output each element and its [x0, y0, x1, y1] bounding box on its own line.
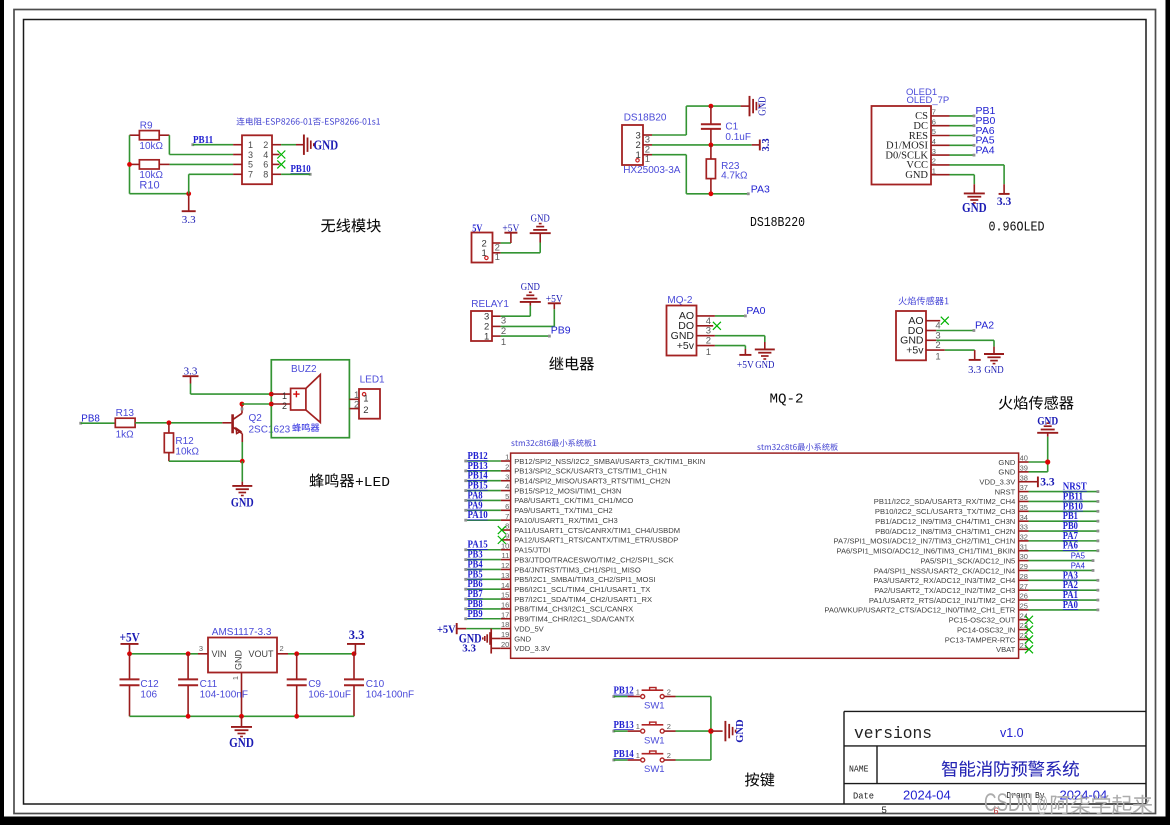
net label PB9 — [551, 325, 571, 337]
resistor R13 — [115, 408, 135, 440]
capacitor C10 — [344, 654, 414, 717]
svg-text:GND: GND — [758, 96, 769, 116]
svg-text:GND: GND — [514, 634, 531, 643]
no-connect X on AO flame — [941, 317, 949, 325]
wire +5v pin flame to 3.3 — [945, 350, 975, 360]
svg-text:13: 13 — [501, 571, 509, 580]
svg-text:4.7kΩ: 4.7kΩ — [721, 170, 748, 181]
caption 继电器 — [549, 356, 594, 370]
svg-text:+5v: +5v — [677, 340, 695, 352]
svg-text:GND: GND — [735, 719, 746, 743]
wire power bus vertical stm32 — [490, 629, 492, 654]
svg-text:VBAT: VBAT — [996, 645, 1016, 654]
svg-text:39: 39 — [1020, 463, 1028, 472]
wire R9 right lead — [159, 134, 169, 136]
pin 1 stub led — [349, 390, 359, 401]
svg-text:HX25003-3A: HX25003-3A — [623, 165, 681, 176]
wire GND pin down — [950, 175, 975, 194]
svg-text:2: 2 — [363, 405, 368, 416]
svg-text:AMS1117-3.3: AMS1117-3.3 — [212, 627, 272, 638]
svg-text:6: 6 — [263, 160, 268, 170]
svg-text:2: 2 — [667, 687, 671, 696]
connector DS18B20 label — [624, 112, 667, 123]
pin 2 stub led — [349, 399, 359, 410]
power 3.3 at DS18B20 (rotated) — [760, 138, 772, 151]
svg-text:3: 3 — [199, 644, 203, 653]
connector J-5V body — [472, 233, 493, 263]
net label PB11 — [191, 134, 213, 146]
stm32 right wires — [1029, 490, 1100, 611]
power 3.3 below wireless module — [182, 194, 196, 226]
svg-text:10kΩ: 10kΩ — [139, 141, 163, 152]
connector 火焰传感器1 label — [898, 297, 948, 306]
svg-text:+5V: +5V — [737, 360, 754, 371]
pin 4 stub — [272, 154, 280, 156]
pin 8 stub — [272, 173, 281, 175]
ground GND at DS18B20 (rotated) — [750, 96, 769, 116]
connector P1 ESP8266 8-pin body — [242, 135, 272, 184]
wire pin1 to GND — [501, 233, 541, 253]
net label PA3 — [751, 183, 770, 195]
svg-text:PA7/SPI1_MOSI/ADC12_IN7/TIM3_C: PA7/SPI1_MOSI/ADC12_IN7/TIM3_CH2/TIM1_CH… — [834, 537, 1016, 546]
svg-text:R12: R12 — [175, 436, 194, 447]
node junction C11 top — [186, 651, 191, 656]
power +5V at 5V conn — [502, 224, 519, 243]
wire ds pin1 down — [652, 155, 686, 194]
svg-text:GND: GND — [1037, 416, 1058, 428]
svg-text:GND: GND — [234, 650, 244, 671]
wire pin19 gnd — [491, 637, 501, 639]
power +5V at relay — [546, 294, 563, 305]
wire loop around buzzer — [271, 360, 349, 438]
wire R9 left lead — [130, 134, 140, 136]
pin 1 stub relay — [492, 336, 506, 348]
svg-text:BUZ2: BUZ2 — [291, 364, 317, 375]
pin 1 stub mq — [697, 346, 715, 358]
svg-text:GND: GND — [229, 735, 254, 750]
svg-text:RELAY1: RELAY1 — [471, 299, 509, 310]
svg-text:VOUT: VOUT — [248, 649, 274, 659]
svg-text:2: 2 — [667, 722, 671, 731]
pin 3 stub relay — [492, 316, 506, 327]
svg-text:32: 32 — [1020, 532, 1028, 541]
node junction gnd bottom — [239, 714, 244, 719]
svg-text:PB13: PB13 — [614, 719, 635, 731]
svg-text:1: 1 — [636, 722, 640, 731]
node junction bottom rail — [709, 191, 714, 196]
power 3.3 at AMS1117 out — [347, 628, 365, 654]
svg-text:104-100nF: 104-100nF — [200, 689, 248, 700]
svg-text:5: 5 — [882, 805, 887, 816]
svg-text:104-100nF: 104-100nF — [366, 689, 414, 700]
resistor R10 — [139, 160, 163, 192]
svg-text:3.3: 3.3 — [462, 643, 476, 655]
svg-text:PB15/SP12_MOSI/TIM1_CH3N: PB15/SP12_MOSI/TIM1_CH3N — [514, 486, 621, 495]
svg-text:PB5/I2C1_SMBAI/TIM3_CH2/SPI1_M: PB5/I2C1_SMBAI/TIM3_CH2/SPI1_MOSI — [514, 575, 655, 584]
node junction C10 top — [352, 651, 357, 656]
ground GND at buttons (rotated) — [725, 719, 746, 743]
pin 2 stub flame — [926, 340, 941, 351]
stm32 left wires — [464, 460, 501, 621]
svg-text:7: 7 — [248, 170, 253, 180]
red page mark — [994, 806, 999, 816]
svg-text:PA15/JTDI: PA15/JTDI — [514, 546, 550, 555]
pin 3 stub mq — [697, 326, 714, 337]
svg-text:GND: GND — [231, 495, 254, 509]
title block drawn value — [1060, 788, 1108, 803]
svg-text:5: 5 — [248, 160, 253, 170]
svg-text:1: 1 — [636, 751, 640, 760]
wire PB14 to switch — [614, 759, 641, 761]
connector OLED1 label — [906, 87, 949, 106]
svg-text:PA0: PA0 — [1063, 599, 1078, 611]
svg-text:GND: GND — [314, 138, 339, 153]
svg-text:31: 31 — [1020, 542, 1028, 551]
pin 3 stub — [233, 154, 242, 156]
wire R10 left lead — [130, 163, 140, 165]
svg-text:106: 106 — [140, 689, 157, 700]
wire left vertical rail — [129, 135, 131, 194]
svg-text:PB0/ADC12_IN8/TIM3_CH3/TIM1_CH: PB0/ADC12_IN8/TIM3_CH3/TIM1_CH2N — [875, 527, 1015, 536]
wire top rail right — [288, 653, 354, 655]
svg-text:GND: GND — [531, 214, 551, 225]
connector OLED1 body — [872, 106, 936, 185]
svg-text:35: 35 — [1020, 503, 1028, 512]
connector HX25003-3A body — [622, 125, 643, 165]
svg-text:18: 18 — [501, 620, 509, 629]
wire pin7 horizontal — [189, 173, 233, 175]
wire top rail — [686, 105, 740, 107]
wire GND pin mq — [715, 336, 765, 350]
connector U-ESP8266 title 连电阻-ESP8266-01否-ESP8266-01s1 — [237, 117, 380, 125]
node junction buzzer pin2 — [269, 402, 274, 407]
svg-text:+5V: +5V — [437, 624, 456, 636]
svg-text:2: 2 — [263, 140, 268, 150]
svg-text:PB13/SPI2_SCK/USART3_CTS/TIM1_: PB13/SPI2_SCK/USART3_CTS/TIM1_CH1N — [514, 467, 667, 476]
svg-text:PC13-TAMPER-RTC: PC13-TAMPER-RTC — [945, 635, 1016, 644]
OLED pin stubs — [931, 116, 950, 175]
svg-text:C9: C9 — [308, 679, 321, 690]
svg-text:VIN: VIN — [212, 649, 227, 659]
no-connect X pin9 — [498, 536, 506, 544]
wire AO to PA0 — [715, 315, 747, 318]
power 3.3 at flame sensor — [968, 360, 981, 376]
caption 无线模块 — [321, 218, 381, 232]
capacitor C1 — [701, 106, 751, 145]
svg-text:1: 1 — [935, 352, 940, 363]
node junction C9 bottom — [294, 714, 299, 719]
svg-text:2024-04: 2024-04 — [903, 788, 951, 803]
power 3.3 at stm32 pin38 — [1029, 477, 1055, 489]
title block date value — [903, 788, 951, 803]
wire top rail left — [130, 653, 199, 655]
svg-text:1: 1 — [636, 687, 640, 696]
pin 7 stub — [233, 173, 242, 175]
svg-text:GND: GND — [521, 282, 541, 293]
caption MQ-2 — [770, 391, 804, 407]
pin 3 stub flame — [926, 330, 941, 341]
svg-text:3.3: 3.3 — [1040, 477, 1055, 489]
net label PB14 — [612, 748, 634, 762]
svg-text:PA6/SPI1_MISO/ADC12_IN6/TIM3_C: PA6/SPI1_MISO/ADC12_IN6/TIM3_CH1/TIM1_BK… — [836, 547, 1015, 556]
svg-text:PB1/ADC12_IN9/TIM3_CH4/TIM1_CH: PB1/ADC12_IN9/TIM3_CH4/TIM1_CH3N — [875, 517, 1015, 526]
net label PA0 — [746, 305, 765, 317]
svg-text:2: 2 — [280, 644, 284, 653]
capacitor C11 — [178, 654, 248, 717]
ground GND wireless module — [304, 135, 339, 155]
svg-text:0.96OLED: 0.96OLED — [989, 220, 1045, 236]
svg-text:30: 30 — [1020, 552, 1028, 561]
stm32 right pin names — [824, 458, 1016, 654]
node junction top-left rail — [127, 651, 132, 656]
svg-text:12: 12 — [501, 561, 509, 570]
connector RELAY1 body — [471, 311, 492, 342]
svg-text:PA6: PA6 — [1063, 540, 1078, 552]
wire +5v pin mq — [715, 346, 746, 355]
ic U2 stm32c8t6 board body — [511, 453, 1019, 658]
svg-text:CSDN: CSDN — [984, 789, 1033, 817]
wire relay pin3 to GND — [501, 302, 531, 316]
wire switch to bus (PB13) — [664, 730, 711, 732]
svg-text:1: 1 — [645, 154, 650, 165]
svg-text:PB14/SPI2_MISO/USART3_RTS/TIM1: PB14/SPI2_MISO/USART3_RTS/TIM1_CH2N — [514, 477, 670, 486]
svg-text:34: 34 — [1020, 513, 1028, 522]
svg-text:28: 28 — [1020, 572, 1028, 581]
svg-text:2SC1623: 2SC1623 — [249, 424, 291, 435]
wire R10 right lead — [159, 163, 169, 165]
pin 3 stub ds — [643, 135, 652, 146]
svg-text:+5V: +5V — [546, 294, 563, 305]
svg-text:1: 1 — [231, 676, 240, 680]
svg-text:40: 40 — [1020, 454, 1028, 463]
stm32 title stm32c8t6最小系统板 — [757, 443, 838, 451]
svg-text:25: 25 — [1020, 602, 1028, 611]
resistor R9 — [139, 121, 163, 152]
svg-text:DS18B20: DS18B20 — [624, 112, 667, 123]
svg-text:PB11/I2C2_SDA/USART3_RX/TIM2_C: PB11/I2C2_SDA/USART3_RX/TIM2_CH4 — [874, 497, 1016, 506]
title block NAME — [849, 765, 869, 775]
net labels NRST PB11 PB10 PB1 PB0 PA7 PA6 PA5 PA4 PA3 PA2 PA1 PA0 — [1063, 481, 1088, 611]
svg-text:GND: GND — [998, 468, 1015, 477]
svg-text:PA5: PA5 — [1071, 551, 1086, 560]
svg-text:PA12/USART1_RTS/CANTX/TIM1_ETR: PA12/USART1_RTS/CANTX/TIM1_ETR/USBDP — [514, 536, 678, 545]
pin 2 stub — [272, 144, 281, 146]
svg-text:10kΩ: 10kΩ — [175, 446, 199, 457]
wire collector to buzzer pin2 — [242, 403, 271, 405]
svg-text:27: 27 — [1020, 582, 1028, 591]
wire VCC to 3.3 — [950, 165, 1005, 194]
caption 按键 — [745, 772, 774, 786]
svg-text:R13: R13 — [116, 408, 135, 419]
svg-text:SW1: SW1 — [644, 735, 665, 746]
svg-text:PA4/SPI1_NSS/USART2_CK/ADC12_I: PA4/SPI1_NSS/USART2_CK/ADC12_IN4 — [874, 566, 1016, 575]
regulator AMS1117-3.3 label — [212, 627, 272, 638]
resistor R23 — [706, 145, 748, 194]
buzzer BUZ2 label — [291, 364, 317, 375]
wire switch to bus (PB14) — [664, 759, 711, 761]
svg-text:MQ-2: MQ-2 — [770, 391, 804, 407]
svg-text:PA11/USART1_CTS/CANRX/TIM1_CH4: PA11/USART1_CTS/CANRX/TIM1_CH4/USBDM — [514, 526, 680, 535]
svg-text:PA5/SPI1_SCK/ADC12_IN5: PA5/SPI1_SCK/ADC12_IN5 — [920, 556, 1015, 565]
net label PA2 — [975, 320, 994, 332]
svg-text:PB12: PB12 — [614, 684, 635, 696]
svg-text:PB10: PB10 — [291, 163, 312, 175]
node junction middle rail — [709, 143, 714, 148]
wire pin40 to junction — [1029, 461, 1048, 463]
sheet zone number 5 — [882, 805, 887, 816]
power 3.3 at buzzer — [183, 366, 199, 384]
svg-text:PA3: PA3 — [751, 183, 770, 195]
wire R10 to pin5 — [170, 163, 234, 165]
svg-text:PB9: PB9 — [551, 325, 571, 337]
svg-text:PA3/USART2_RX/ADC12_IN3/TIM2_C: PA3/USART2_RX/ADC12_IN3/TIM2_CH4 — [873, 576, 1015, 585]
ground GND at OLED — [962, 193, 987, 214]
net label PB12 — [612, 684, 634, 698]
svg-text:29: 29 — [1020, 562, 1028, 571]
node junction gnd right — [1045, 459, 1050, 464]
node junction top rail — [709, 104, 714, 109]
svg-text:3.3: 3.3 — [968, 365, 981, 376]
svg-text:VDD_3.3V: VDD_3.3V — [979, 478, 1016, 487]
wire bottom rail — [130, 715, 355, 717]
svg-text:+5v: +5v — [906, 344, 924, 356]
svg-text:3.3: 3.3 — [184, 366, 198, 378]
svg-text:1: 1 — [495, 252, 500, 263]
title block outline — [844, 711, 1146, 804]
power +5V at MQ-2 — [737, 355, 754, 371]
net label PB13 — [612, 719, 634, 733]
svg-text:PA0/WKUP/USART2_CTS/ADC12_IN0/: PA0/WKUP/USART2_CTS/ADC12_IN0/TIM2_CH1_E… — [824, 606, 1015, 615]
pin 2 stub ds — [643, 144, 652, 155]
title block Date — [853, 791, 874, 802]
right black bar — [1166, 0, 1170, 818]
svg-text:C10: C10 — [366, 679, 385, 690]
pin 3 stub ams — [198, 644, 208, 654]
pin 1 stub ds — [643, 154, 652, 165]
svg-text:3.3: 3.3 — [997, 196, 1012, 208]
svg-text:GND: GND — [984, 365, 1004, 376]
svg-text:VDD_5V: VDD_5V — [514, 624, 544, 633]
svg-text:PA8/USART1_CK/TIM1_CH1/MCO: PA8/USART1_CK/TIM1_CH1/MCO — [514, 496, 633, 505]
ground GND at MQ-2 — [755, 349, 775, 371]
svg-text:C11: C11 — [200, 679, 218, 690]
stm32 right pin stubs and numbers 40-21 — [1019, 454, 1029, 650]
svg-text:16: 16 — [501, 601, 509, 610]
svg-text:GND: GND — [905, 170, 928, 181]
wire pin2 to +5V — [501, 242, 511, 244]
title block versions — [854, 725, 932, 744]
svg-text:C12: C12 — [140, 679, 159, 690]
bottom black bar — [0, 817, 1170, 825]
switch SW1 (PB12) — [636, 687, 671, 711]
svg-text:1: 1 — [282, 391, 287, 401]
caption 火焰传感器 — [999, 396, 1074, 410]
wire PB13 to switch — [614, 730, 641, 732]
svg-text:+LED: +LED — [355, 475, 390, 491]
stm32 left pin names — [514, 457, 705, 653]
pin 1 stub flame — [926, 350, 945, 362]
svg-text:36: 36 — [1020, 493, 1028, 502]
connector MQ-2 label — [667, 295, 692, 306]
pin 4 stub mq — [697, 316, 715, 327]
connector 火焰传感器1 body — [896, 311, 926, 360]
svg-text:PA1/USART2_RTS/ADC12_IN1/TIM2_: PA1/USART2_RTS/ADC12_IN1/TIM2_CH2 — [869, 596, 1015, 605]
svg-text:Q2: Q2 — [249, 413, 263, 424]
svg-text:1: 1 — [501, 337, 506, 348]
svg-text:3.3: 3.3 — [761, 138, 772, 151]
wire pin8 to PB10 — [281, 173, 310, 175]
ground GND at AMS1117 — [229, 716, 254, 750]
svg-text:+5V: +5V — [120, 631, 140, 645]
svg-text:LED1: LED1 — [360, 375, 385, 386]
svg-text:PA10/USART1_RX/TIM1_CH3: PA10/USART1_RX/TIM1_CH3 — [514, 516, 618, 525]
wire emitter down — [241, 442, 243, 461]
svg-text:8: 8 — [263, 170, 268, 180]
wire to top GND — [1047, 433, 1049, 437]
capacitor C9 — [287, 654, 351, 717]
connector 5V label — [472, 222, 482, 234]
svg-text:GND: GND — [962, 200, 987, 215]
wire R12 bottom to emitter node — [169, 460, 242, 462]
svg-text:3.3: 3.3 — [182, 214, 196, 226]
caption 蜂鸣器+LED — [310, 473, 390, 491]
regulator U3 AMS1117-3.3 body — [208, 638, 277, 673]
svg-text:1: 1 — [484, 331, 489, 342]
pin 2 stub relay — [492, 326, 506, 337]
wire top rail to GND — [741, 105, 750, 107]
wire pin20 3v3 — [491, 647, 501, 649]
svg-text:38: 38 — [1020, 473, 1028, 482]
pin 5 stub — [233, 163, 242, 165]
wire GND pin flame — [936, 340, 994, 354]
wire bottom horizontal to 3.3 — [130, 193, 189, 195]
pin 2 stub 5V conn — [493, 242, 501, 253]
svg-text:PA2: PA2 — [975, 320, 994, 332]
no-connect X pin8 — [498, 526, 506, 534]
no-connect X pins 24-21 — [1025, 616, 1033, 654]
svg-text:Date: Date — [853, 791, 874, 802]
ground GND at buzzer — [231, 486, 254, 509]
svg-text:MQ-2: MQ-2 — [667, 295, 692, 306]
svg-text:PC15-OSC32_OUT: PC15-OSC32_OUT — [949, 616, 1016, 625]
svg-text:20: 20 — [501, 640, 509, 649]
pin 2 stub ams — [277, 644, 288, 654]
buzzer BUZ2 — [271, 375, 320, 423]
ground GND at stm32 pin19 — [459, 632, 490, 646]
net labels PB1 PB0 PA6 PA5 PA4 — [976, 105, 996, 156]
svg-text:GND: GND — [998, 458, 1015, 467]
wire relay pin1 to PB9 — [501, 335, 551, 338]
wire R9 to pin3 vertical — [168, 135, 170, 154]
svg-text:PB4/JNTRST/TIM3_CH1/SPI1_MISO: PB4/JNTRST/TIM3_CH1/SPI1_MISO — [514, 565, 641, 574]
pin 6 stub — [272, 163, 280, 165]
svg-text:NAME: NAME — [849, 765, 869, 775]
connector MQ-2 body — [667, 306, 697, 356]
svg-text:37: 37 — [1020, 483, 1028, 492]
OLED wires pins 7-3 — [950, 115, 976, 157]
pin 1 stub 5V conn — [493, 252, 501, 263]
svg-text:VDD_3.3V: VDD_3.3V — [514, 644, 551, 653]
stm32 left pin stubs and numbers 1-20 — [501, 453, 511, 649]
wire button bus vertical — [710, 697, 712, 761]
connector LED1 label — [360, 375, 385, 386]
svg-text:C1: C1 — [725, 121, 738, 132]
capacitor C12 — [120, 654, 160, 717]
ground GND at 5V conn — [530, 214, 551, 234]
net label PB8 — [79, 414, 100, 425]
wire switch to bus (PB12) — [664, 696, 711, 698]
node junction collector — [240, 402, 245, 407]
